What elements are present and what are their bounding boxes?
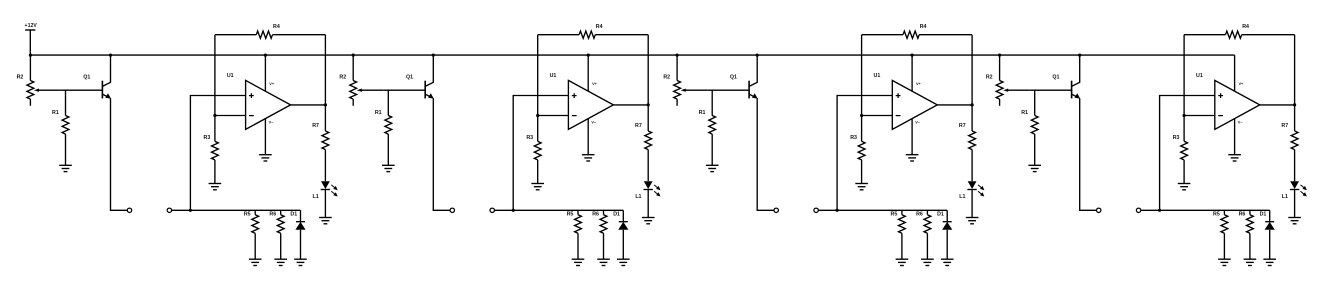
op-amp U1 (stage 3) <box>892 80 937 129</box>
svg-text:R2: R2 <box>663 74 670 80</box>
label R2 (stage 1) <box>17 74 24 80</box>
label V- (stage 3) <box>915 120 921 124</box>
potentiometer R2 (stage 4) <box>996 55 1029 106</box>
resistor R4 with feedback verticals (stage 1) <box>215 31 326 141</box>
svg-text:R7: R7 <box>635 123 642 129</box>
transistor Q1 (stage 2) <box>425 55 434 99</box>
label L1 (stage 2) <box>635 194 641 200</box>
transistor Q1 (stage 3) <box>749 55 758 99</box>
wire: inverting input (stage 2) <box>538 115 569 117</box>
svg-text:R5: R5 <box>1213 211 1220 217</box>
terminal: stage output (stage 3) <box>774 208 778 212</box>
svg-text:R1: R1 <box>1021 110 1028 116</box>
junction: inverting input node (stage 1) <box>213 114 216 117</box>
svg-text:R2: R2 <box>986 74 993 80</box>
label R4 (stage 3) <box>920 24 927 30</box>
wire: V- to ground (stage 1) <box>264 119 266 155</box>
label R4 (stage 2) <box>596 24 603 30</box>
resistor R3 (stage 1) <box>211 141 218 183</box>
ground: below R3 (stage 1) <box>209 184 222 190</box>
label R6 (stage 4) <box>1239 211 1246 217</box>
label R7 (stage 3) <box>959 123 966 129</box>
wire: V- to ground (stage 2) <box>587 119 589 155</box>
label Q1 (stage 3) <box>730 75 737 81</box>
terminal: stage output (stage 2) <box>450 208 454 212</box>
ground: below R6 (stage 1) <box>274 259 287 265</box>
label R6 (stage 3) <box>916 211 923 217</box>
wire: inverting input (stage 1) <box>215 115 246 117</box>
svg-text:L1: L1 <box>959 194 965 200</box>
ground: below LED (stage 4) <box>1288 218 1301 224</box>
label V+ (stage 1) <box>269 82 275 86</box>
resistor R4 with feedback verticals (stage 4) <box>1184 31 1295 141</box>
junction: input node (stage 3) <box>836 209 839 212</box>
ground: below LED (stage 3) <box>966 218 979 224</box>
power +12V <box>24 23 37 55</box>
resistor R1 (stage 1) <box>62 90 69 165</box>
wire: LED cathode to ground (stage 1) <box>324 190 326 218</box>
LED L1 (stage 2) <box>644 181 661 196</box>
LED L1 (stage 1) <box>321 181 338 196</box>
ground: op-amp V- (stage 3) <box>906 155 919 161</box>
diode D1 (stage 2) <box>618 210 628 259</box>
junction: collector / rail (stage 4) <box>1078 54 1081 57</box>
ground: below D1 (stage 3) <box>941 259 954 265</box>
label Q1 (stage 1) <box>83 75 90 81</box>
junction: V+ / rail (stage 1) <box>264 54 267 57</box>
label D1 (stage 3) <box>937 211 944 217</box>
label R2 (stage 2) <box>339 74 346 80</box>
label R7 (stage 4) <box>1281 123 1288 129</box>
wire: V+ supply (stage 1) <box>264 55 266 91</box>
svg-text:R6: R6 <box>592 211 599 217</box>
svg-text:R7: R7 <box>312 123 319 129</box>
junction: V+ / rail (stage 3) <box>911 54 914 57</box>
ground: below D1 (stage 4) <box>1263 259 1276 265</box>
ground: below R5 (stage 2) <box>572 259 585 265</box>
junction: inverting input node (stage 2) <box>536 114 539 117</box>
label R3 (stage 2) <box>526 135 533 141</box>
junction: input node (stage 1) <box>189 209 192 212</box>
op-amp U1 (stage 1) <box>246 80 291 129</box>
svg-text:V−: V− <box>591 120 597 124</box>
svg-text:R4: R4 <box>920 24 927 30</box>
svg-text:R3: R3 <box>526 135 533 141</box>
diode D1 (stage 4) <box>1265 210 1275 259</box>
ground: op-amp V- (stage 1) <box>259 155 272 161</box>
ground: below D1 (stage 2) <box>617 259 630 265</box>
svg-text:V−: V− <box>915 120 921 124</box>
svg-text:R3: R3 <box>1173 135 1180 141</box>
resistor R6 (stage 2) <box>600 210 607 259</box>
junction: rail / R2 (stage 3) <box>676 54 679 57</box>
wire: LED cathode to ground (stage 3) <box>971 190 973 218</box>
wire: non-inverting input (stage 3) <box>837 96 892 211</box>
transistor Q1 (stage 1) <box>102 55 111 99</box>
resistor R5 (stage 2) <box>575 210 582 259</box>
svg-text:R1: R1 <box>375 110 382 116</box>
label R2 (stage 4) <box>986 74 993 80</box>
resistor R1 (stage 3) <box>709 90 716 165</box>
svg-text:R6: R6 <box>1239 211 1246 217</box>
wire: input bus (stage 4) <box>1141 209 1270 211</box>
resistor R7 (stage 1) <box>322 105 329 181</box>
diode D1 (stage 3) <box>942 210 952 259</box>
svg-text:R1: R1 <box>699 110 706 116</box>
svg-text:R4: R4 <box>1242 24 1249 30</box>
junction: output node (stage 4) <box>1293 103 1296 106</box>
wire: V- to ground (stage 4) <box>1234 119 1236 155</box>
svg-text:U1: U1 <box>227 73 234 79</box>
resistor R5 (stage 3) <box>899 210 906 259</box>
terminal: op-amp stage input (stage 4) <box>1136 208 1140 212</box>
label V+ (stage 4) <box>1239 82 1245 86</box>
svg-text:L1: L1 <box>1282 194 1288 200</box>
junction: collector / rail (stage 1) <box>109 54 112 57</box>
wire: input bus (stage 2) <box>494 209 623 211</box>
wire: non-inverting input (stage 1) <box>190 96 245 211</box>
wire: V+ supply (stage 3) <box>911 55 913 91</box>
label V+ (stage 2) <box>592 82 598 86</box>
junction: output node (stage 2) <box>647 103 650 106</box>
wire: wiper to base (stage 2) <box>383 89 425 91</box>
svg-text:D1: D1 <box>290 211 297 217</box>
junction: inverting input node (stage 3) <box>860 114 863 117</box>
resistor R1 (stage 2) <box>385 90 392 165</box>
label D1 (stage 4) <box>1260 211 1267 217</box>
resistor R7 (stage 3) <box>969 105 976 181</box>
label R6 (stage 2) <box>592 211 599 217</box>
label R1 (stage 3) <box>699 110 706 116</box>
label U1 (stage 1) <box>227 73 234 79</box>
svg-text:R5: R5 <box>244 211 251 217</box>
svg-text:Q1: Q1 <box>730 75 737 81</box>
label D1 (stage 2) <box>613 211 620 217</box>
ground: below R1 (stage 1) <box>59 165 72 171</box>
svg-text:R7: R7 <box>1281 123 1288 129</box>
wire: input bus (stage 3) <box>818 209 947 211</box>
label R5 (stage 2) <box>567 211 574 217</box>
wire: LED cathode to ground (stage 4) <box>1294 190 1296 218</box>
svg-text:R1: R1 <box>52 110 59 116</box>
junction: rail / R2 (stage 4) <box>998 54 1001 57</box>
label R4 (stage 1) <box>273 24 280 30</box>
svg-text:U1: U1 <box>550 73 557 79</box>
svg-text:U1: U1 <box>874 73 881 79</box>
resistor R1 (stage 4) <box>1031 90 1038 165</box>
ground: below R6 (stage 3) <box>921 259 934 265</box>
label R2 (stage 3) <box>663 74 670 80</box>
svg-text:R2: R2 <box>339 74 346 80</box>
resistor R7 (stage 2) <box>645 105 652 181</box>
svg-text:R4: R4 <box>596 24 603 30</box>
resistor R3 (stage 3) <box>858 141 865 183</box>
ground: below R1 (stage 3) <box>706 165 719 171</box>
wire: V- to ground (stage 3) <box>911 119 913 155</box>
label R4 (stage 4) <box>1242 24 1249 30</box>
resistor R5 (stage 1) <box>252 210 259 259</box>
wire: op-amp output (stage 3) <box>937 104 972 106</box>
ground: below R6 (stage 4) <box>1244 259 1257 265</box>
svg-text:R7: R7 <box>959 123 966 129</box>
resistor R6 (stage 4) <box>1247 210 1254 259</box>
svg-text:V+: V+ <box>916 82 922 86</box>
wire: input bus (stage 1) <box>171 209 300 211</box>
svg-text:L1: L1 <box>313 194 319 200</box>
wire: +12V supply rail <box>30 54 1234 56</box>
junction: V+ / rail (stage 2) <box>587 54 590 57</box>
label R1 (stage 1) <box>52 110 59 116</box>
label R3 (stage 4) <box>1173 135 1180 141</box>
svg-text:V+: V+ <box>592 82 598 86</box>
ground: below R3 (stage 4) <box>1178 184 1191 190</box>
potentiometer R2 (stage 1) <box>27 55 60 106</box>
diode D1 (stage 1) <box>295 210 305 259</box>
wire: wiper to base (stage 1) <box>60 89 102 91</box>
wire: non-inverting input (stage 4) <box>1160 96 1215 211</box>
resistor R6 (stage 3) <box>924 210 931 259</box>
svg-text:R5: R5 <box>567 211 574 217</box>
junction: collector / rail (stage 2) <box>432 54 435 57</box>
terminal: op-amp stage input (stage 3) <box>814 208 818 212</box>
label R1 (stage 2) <box>375 110 382 116</box>
ground: below LED (stage 1) <box>319 218 332 224</box>
wire: op-amp output (stage 1) <box>291 104 326 106</box>
terminal: op-amp stage input (stage 1) <box>167 208 171 212</box>
wire: emitter to output terminal (stage 4) <box>1080 98 1097 210</box>
svg-text:U1: U1 <box>1196 73 1203 79</box>
resistor R6 (stage 1) <box>277 210 284 259</box>
terminal: stage output (stage 1) <box>127 208 131 212</box>
label V- (stage 2) <box>591 120 597 124</box>
op-amp U1 (stage 4) <box>1215 80 1260 129</box>
transistor Q1 (stage 4) <box>1072 55 1081 99</box>
LED L1 (stage 3) <box>967 181 984 196</box>
label R7 (stage 1) <box>312 123 319 129</box>
label R6 (stage 1) <box>269 211 276 217</box>
svg-text:R6: R6 <box>269 211 276 217</box>
ground: below R6 (stage 2) <box>597 259 610 265</box>
junction: rail / R2 (stage 2) <box>352 54 355 57</box>
label R3 (stage 1) <box>204 135 211 141</box>
svg-text:R6: R6 <box>916 211 923 217</box>
wire: emitter to output terminal (stage 1) <box>111 98 128 210</box>
ground: below R3 (stage 2) <box>531 184 544 190</box>
label R5 (stage 4) <box>1213 211 1220 217</box>
label R1 (stage 4) <box>1021 110 1028 116</box>
label U1 (stage 4) <box>1196 73 1203 79</box>
LED L1 (stage 4) <box>1290 181 1307 196</box>
wire: emitter to output terminal (stage 2) <box>433 98 450 210</box>
junction: input node (stage 2) <box>512 209 515 212</box>
label D1 (stage 1) <box>290 211 297 217</box>
ground: below R3 (stage 3) <box>855 184 868 190</box>
wire: wiper to base (stage 3) <box>707 89 749 91</box>
svg-text:+ 12V: + 12V <box>24 23 37 29</box>
resistor R4 with feedback verticals (stage 2) <box>538 31 649 141</box>
label L1 (stage 3) <box>959 194 965 200</box>
junction: output node (stage 1) <box>324 103 327 106</box>
svg-text:R3: R3 <box>850 135 857 141</box>
wire: emitter to output terminal (stage 3) <box>757 98 774 210</box>
label V- (stage 1) <box>269 120 275 124</box>
svg-text:V−: V− <box>269 120 275 124</box>
potentiometer R2 (stage 2) <box>350 55 383 106</box>
svg-text:Q1: Q1 <box>83 75 90 81</box>
label R3 (stage 3) <box>850 135 857 141</box>
svg-text:R5: R5 <box>891 211 898 217</box>
wire: op-amp output (stage 2) <box>613 104 648 106</box>
wire: op-amp output (stage 4) <box>1260 104 1295 106</box>
wire: V+ supply (stage 2) <box>587 55 589 91</box>
wire: inverting input (stage 3) <box>862 115 893 117</box>
label Q1 (stage 4) <box>1052 75 1059 81</box>
label R7 (stage 2) <box>635 123 642 129</box>
terminal: op-amp stage input (stage 2) <box>490 208 494 212</box>
svg-text:V−: V− <box>1238 120 1244 124</box>
ground: op-amp V- (stage 2) <box>582 155 595 161</box>
potentiometer R2 (stage 3) <box>674 55 707 106</box>
svg-text:Q1: Q1 <box>1052 75 1059 81</box>
label U1 (stage 2) <box>550 73 557 79</box>
label R5 (stage 3) <box>891 211 898 217</box>
ground: below R1 (stage 2) <box>382 165 395 171</box>
ground: below D1 (stage 1) <box>294 259 307 265</box>
ground: below R5 (stage 3) <box>896 259 909 265</box>
resistor R4 with feedback verticals (stage 3) <box>862 31 973 141</box>
svg-text:D1: D1 <box>1260 211 1267 217</box>
svg-text:V+: V+ <box>269 82 275 86</box>
ground: below R5 (stage 1) <box>249 259 262 265</box>
svg-text:Q1: Q1 <box>406 75 413 81</box>
label R5 (stage 1) <box>244 211 251 217</box>
label V+ (stage 3) <box>916 82 922 86</box>
wire: LED cathode to ground (stage 2) <box>647 190 649 218</box>
resistor R5 (stage 4) <box>1221 210 1228 259</box>
junction: rail / R2 (stage 1) <box>29 54 32 57</box>
junction: collector / rail (stage 3) <box>756 54 759 57</box>
svg-text:R3: R3 <box>204 135 211 141</box>
label L1 (stage 1) <box>313 194 319 200</box>
label L1 (stage 4) <box>1282 194 1288 200</box>
ground: op-amp V- (stage 4) <box>1228 155 1241 161</box>
label U1 (stage 3) <box>874 73 881 79</box>
svg-text:L1: L1 <box>635 194 641 200</box>
resistor R7 (stage 4) <box>1291 105 1298 181</box>
resistor R3 (stage 4) <box>1181 141 1188 183</box>
junction: input node (stage 4) <box>1158 209 1161 212</box>
resistor R3 (stage 2) <box>534 141 541 183</box>
svg-text:D1: D1 <box>613 211 620 217</box>
ground: below LED (stage 2) <box>642 218 655 224</box>
wire: wiper to base (stage 4) <box>1030 89 1072 91</box>
junction: inverting input node (stage 4) <box>1183 114 1186 117</box>
label Q1 (stage 2) <box>406 75 413 81</box>
svg-text:D1: D1 <box>937 211 944 217</box>
label V- (stage 4) <box>1238 120 1244 124</box>
svg-text:V+: V+ <box>1239 82 1245 86</box>
op-amp U1 (stage 2) <box>568 80 613 129</box>
wire: inverting input (stage 4) <box>1184 115 1215 117</box>
svg-text:R4: R4 <box>273 24 280 30</box>
wire: non-inverting input (stage 2) <box>513 96 568 211</box>
svg-text:R2: R2 <box>17 74 24 80</box>
ground: below R1 (stage 4) <box>1028 165 1041 171</box>
terminal: stage output (stage 4) <box>1097 208 1101 212</box>
ground: below R5 (stage 4) <box>1218 259 1231 265</box>
junction: output node (stage 3) <box>971 103 974 106</box>
wire: V+ supply (stage 4) <box>1234 55 1236 91</box>
